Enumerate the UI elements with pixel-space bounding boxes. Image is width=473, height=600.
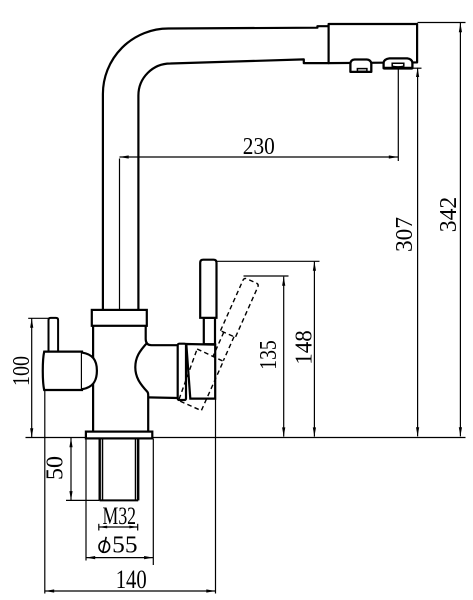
arrow 230 left [120, 155, 129, 158]
spray nozzle bottom edge [384, 67, 413, 70]
arrow 307 bottom [416, 427, 419, 436]
dim 230 line [120, 156, 399, 158]
dim 135 extension top [244, 275, 289, 277]
right lever stem [204, 318, 215, 344]
dim 307 line [417, 68, 419, 437]
arrow 230 right [389, 155, 398, 158]
dim 230 right extension from nozzle [397, 69, 399, 162]
dim 148 extension top [217, 260, 320, 262]
spout outer contour [103, 26, 329, 310]
mounting flange [86, 432, 152, 439]
dim phi55 extension right [152, 439, 154, 565]
thread inner line left [102, 438, 104, 500]
dim 342 line [459, 23, 461, 436]
svg-text:307: 307 [392, 217, 418, 252]
threaded shank outer left [98, 438, 100, 500]
svg-text:100: 100 [9, 356, 35, 386]
svg-text:55: 55 [112, 532, 137, 558]
arrow 135 top [282, 277, 285, 286]
svg-text:M32: M32 [103, 503, 137, 530]
body collar [92, 310, 147, 326]
body right edge upper and port top [146, 326, 178, 345]
left handle cap line [81, 352, 83, 390]
arrow 342 bottom [459, 427, 462, 436]
spray nozzle right [384, 58, 413, 68]
body left edge [92, 326, 94, 432]
right lever knob [200, 260, 216, 318]
svg-text:342: 342 [436, 197, 462, 233]
baseline extension right [152, 437, 465, 439]
dim phi55 line [86, 557, 153, 559]
arrow 50 top [69, 438, 72, 447]
aerator nozzle left [350, 60, 371, 72]
spray head body [329, 24, 418, 63]
arrow phi55 right [144, 556, 153, 559]
dim 140 line [45, 590, 216, 592]
thread inner line right [135, 438, 137, 500]
arrow M32 right [129, 526, 137, 529]
left handle dome [82, 353, 97, 390]
dashed rotated lever position [175, 272, 259, 411]
svg-text:135: 135 [256, 340, 282, 370]
arrow 307 top [416, 68, 419, 77]
arrow 140 left [45, 589, 54, 592]
spray tip right [392, 63, 404, 67]
arrow 100 bottom [30, 428, 33, 437]
dim 100 extension top [28, 317, 48, 319]
baseline extension left [26, 437, 86, 439]
label phi symbol [99, 537, 110, 553]
svg-text:148: 148 [292, 330, 318, 365]
dim 148 line [313, 262, 315, 437]
dim phi55 extension left [85, 439, 87, 561]
dim 307 extension top [413, 67, 422, 69]
aerator tip left [357, 69, 367, 72]
dim M32 line [99, 526, 138, 528]
arrow 148 bottom [313, 427, 316, 436]
body waist curve [135, 343, 148, 432]
right port ring [178, 344, 186, 400]
arrow 100 top [30, 319, 33, 328]
spout inner contour [138, 59, 328, 310]
arrow phi55 left [86, 556, 95, 559]
arrow M32 left [99, 526, 107, 529]
dim 140 extension right [215, 399, 217, 594]
arrow 342 top [459, 23, 462, 32]
svg-text:140: 140 [116, 565, 147, 594]
left handle rod [49, 318, 59, 352]
arrow 50 bottom [69, 491, 72, 500]
dim 50 bottom extension / thread end [66, 499, 100, 501]
arrow 148 top [313, 262, 316, 271]
dim 50 line [70, 438, 72, 500]
svg-text:230: 230 [243, 134, 275, 160]
left handle body [43, 352, 82, 390]
shank bottom edge [100, 499, 139, 501]
dim M32 extension ticks [98, 524, 100, 531]
dim 100 line [31, 319, 33, 438]
svg-text:50: 50 [42, 456, 68, 480]
port bottom line [148, 396, 178, 399]
right lever base [186, 344, 215, 399]
arrow 140 right [206, 589, 215, 592]
dim 135 line [283, 277, 285, 437]
dim 140 extension left [44, 391, 46, 594]
dim 342 extension top [418, 22, 466, 24]
arrow 135 bottom [282, 427, 285, 436]
dimension 230 extension line at faucet axis [119, 159, 121, 310]
threaded shank outer right [137, 438, 139, 500]
